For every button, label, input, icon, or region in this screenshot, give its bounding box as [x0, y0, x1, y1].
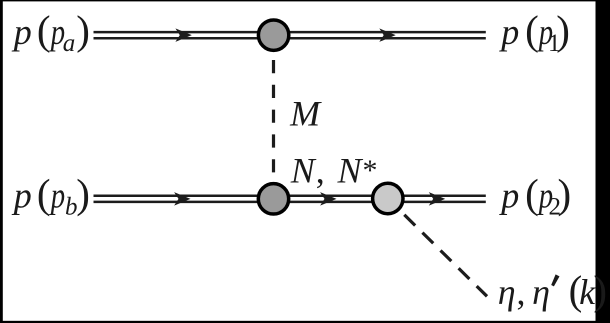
- svg-text:(: (: [37, 171, 51, 217]
- svg-text:p: p: [498, 12, 519, 52]
- svg-text:): ): [76, 7, 90, 53]
- vertex blob bottom-right (light): [373, 183, 403, 213]
- svg-text:): ): [593, 267, 607, 313]
- label p(pb): [11, 171, 90, 221]
- wire: top proton double line: [94, 32, 486, 38]
- svg-text:): ): [556, 7, 570, 53]
- svg-text:(: (: [525, 171, 539, 217]
- svg-text:): ): [76, 171, 90, 217]
- svg-text:): ): [558, 171, 572, 217]
- svg-text:M: M: [289, 93, 322, 133]
- svg-text:p: p: [49, 177, 65, 217]
- right black bar: [596, 0, 610, 323]
- wire: bottom proton double line: [94, 196, 486, 202]
- svg-text:p: p: [498, 176, 519, 216]
- arrow bottom-right: [429, 192, 445, 206]
- label p(pa): [11, 7, 90, 57]
- arrow bottom-middle: [320, 192, 336, 206]
- svg-text:p: p: [11, 12, 32, 52]
- svg-text:(: (: [37, 7, 51, 53]
- svg-text:p: p: [11, 176, 32, 216]
- svg-text:(: (: [525, 7, 539, 53]
- vertex blob top: [258, 20, 288, 50]
- vertex blob bottom-left (dark): [258, 184, 288, 214]
- arrow top-right: [379, 28, 395, 42]
- label p(p2): [498, 171, 571, 221]
- svg-text:*: *: [363, 154, 378, 187]
- svg-text:η,η(k: η,η(k: [498, 267, 596, 313]
- dashed eta line (diagonal): [388, 199, 487, 297]
- arrow bottom-left: [174, 192, 190, 206]
- bottom black bar: [0, 321, 610, 323]
- label p(p1): [498, 7, 570, 57]
- arrow top-left: [175, 28, 191, 42]
- svg-text:a: a: [63, 30, 75, 57]
- dashed meson line M (vertical): [272, 35, 275, 182]
- prime of eta': [551, 274, 559, 286]
